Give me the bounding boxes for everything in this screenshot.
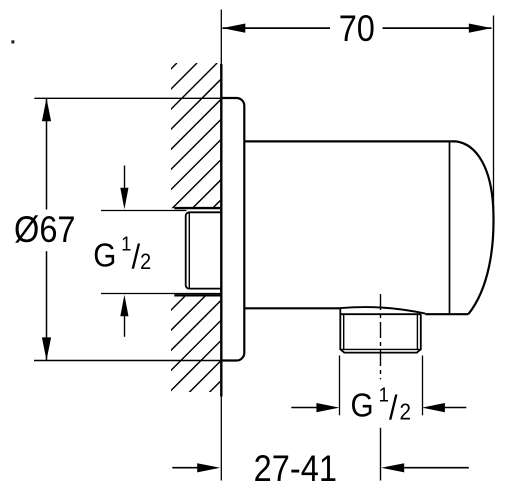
extension line rear thread bottom [101, 293, 221, 295]
svg-text:1: 1 [121, 233, 131, 256]
svg-text:/: / [389, 389, 398, 427]
extension line outlet right [422, 356, 424, 416]
rounded cap outline [456, 141, 494, 314]
bottom G1/2 label [351, 384, 411, 427]
svg-text:70: 70 [339, 8, 375, 49]
wall face line [220, 10, 222, 481]
outlet inner bottom line [340, 348, 421, 350]
svg-text:G: G [93, 237, 116, 274]
body-outlet fillet arc [341, 307, 426, 314]
centerline lower segment [380, 428, 382, 481]
rear inlet thread relief line [188, 213, 190, 288]
outlet top edge [340, 313, 421, 315]
outlet thread relief right [416, 314, 418, 349]
flange (escutcheon) outline [221, 98, 244, 361]
body top edge [244, 140, 456, 142]
outlet nipple outline [340, 308, 421, 352]
rear G1/2 arrow upper [120, 166, 128, 210]
body bottom edge [244, 307, 340, 309]
dimension 27-41 [172, 448, 469, 489]
extension line right (70) [493, 16, 495, 233]
cap junction line [449, 141, 451, 314]
extension line flange top [34, 97, 220, 99]
dimension 70 [222, 8, 492, 49]
cap bottom edge [425, 313, 468, 315]
svg-text:/: / [132, 238, 141, 276]
extension line rear thread top [101, 210, 187, 212]
outlet thread relief left [343, 314, 345, 349]
svg-text:2: 2 [140, 250, 151, 274]
rear G1/2 arrow lower [120, 295, 128, 337]
svg-text:27-41: 27-41 [254, 448, 337, 489]
extension line flange bottom [34, 360, 220, 362]
bottom G1/2 dimension arrows [291, 403, 466, 412]
stray mark [11, 40, 14, 43]
extension line outlet left [339, 356, 341, 416]
rear G1/2 label [93, 233, 151, 276]
dimension diameter 67 [14, 98, 76, 360]
wall opening edge upper [174, 207, 222, 209]
svg-text:1: 1 [379, 384, 389, 407]
wall opening edge lower [174, 294, 222, 296]
svg-text:Ø67: Ø67 [14, 209, 76, 250]
outlet centerline [380, 294, 382, 379]
rear inlet thread outline [186, 212, 222, 288]
svg-text:2: 2 [399, 399, 411, 425]
svg-text:G: G [351, 387, 374, 424]
